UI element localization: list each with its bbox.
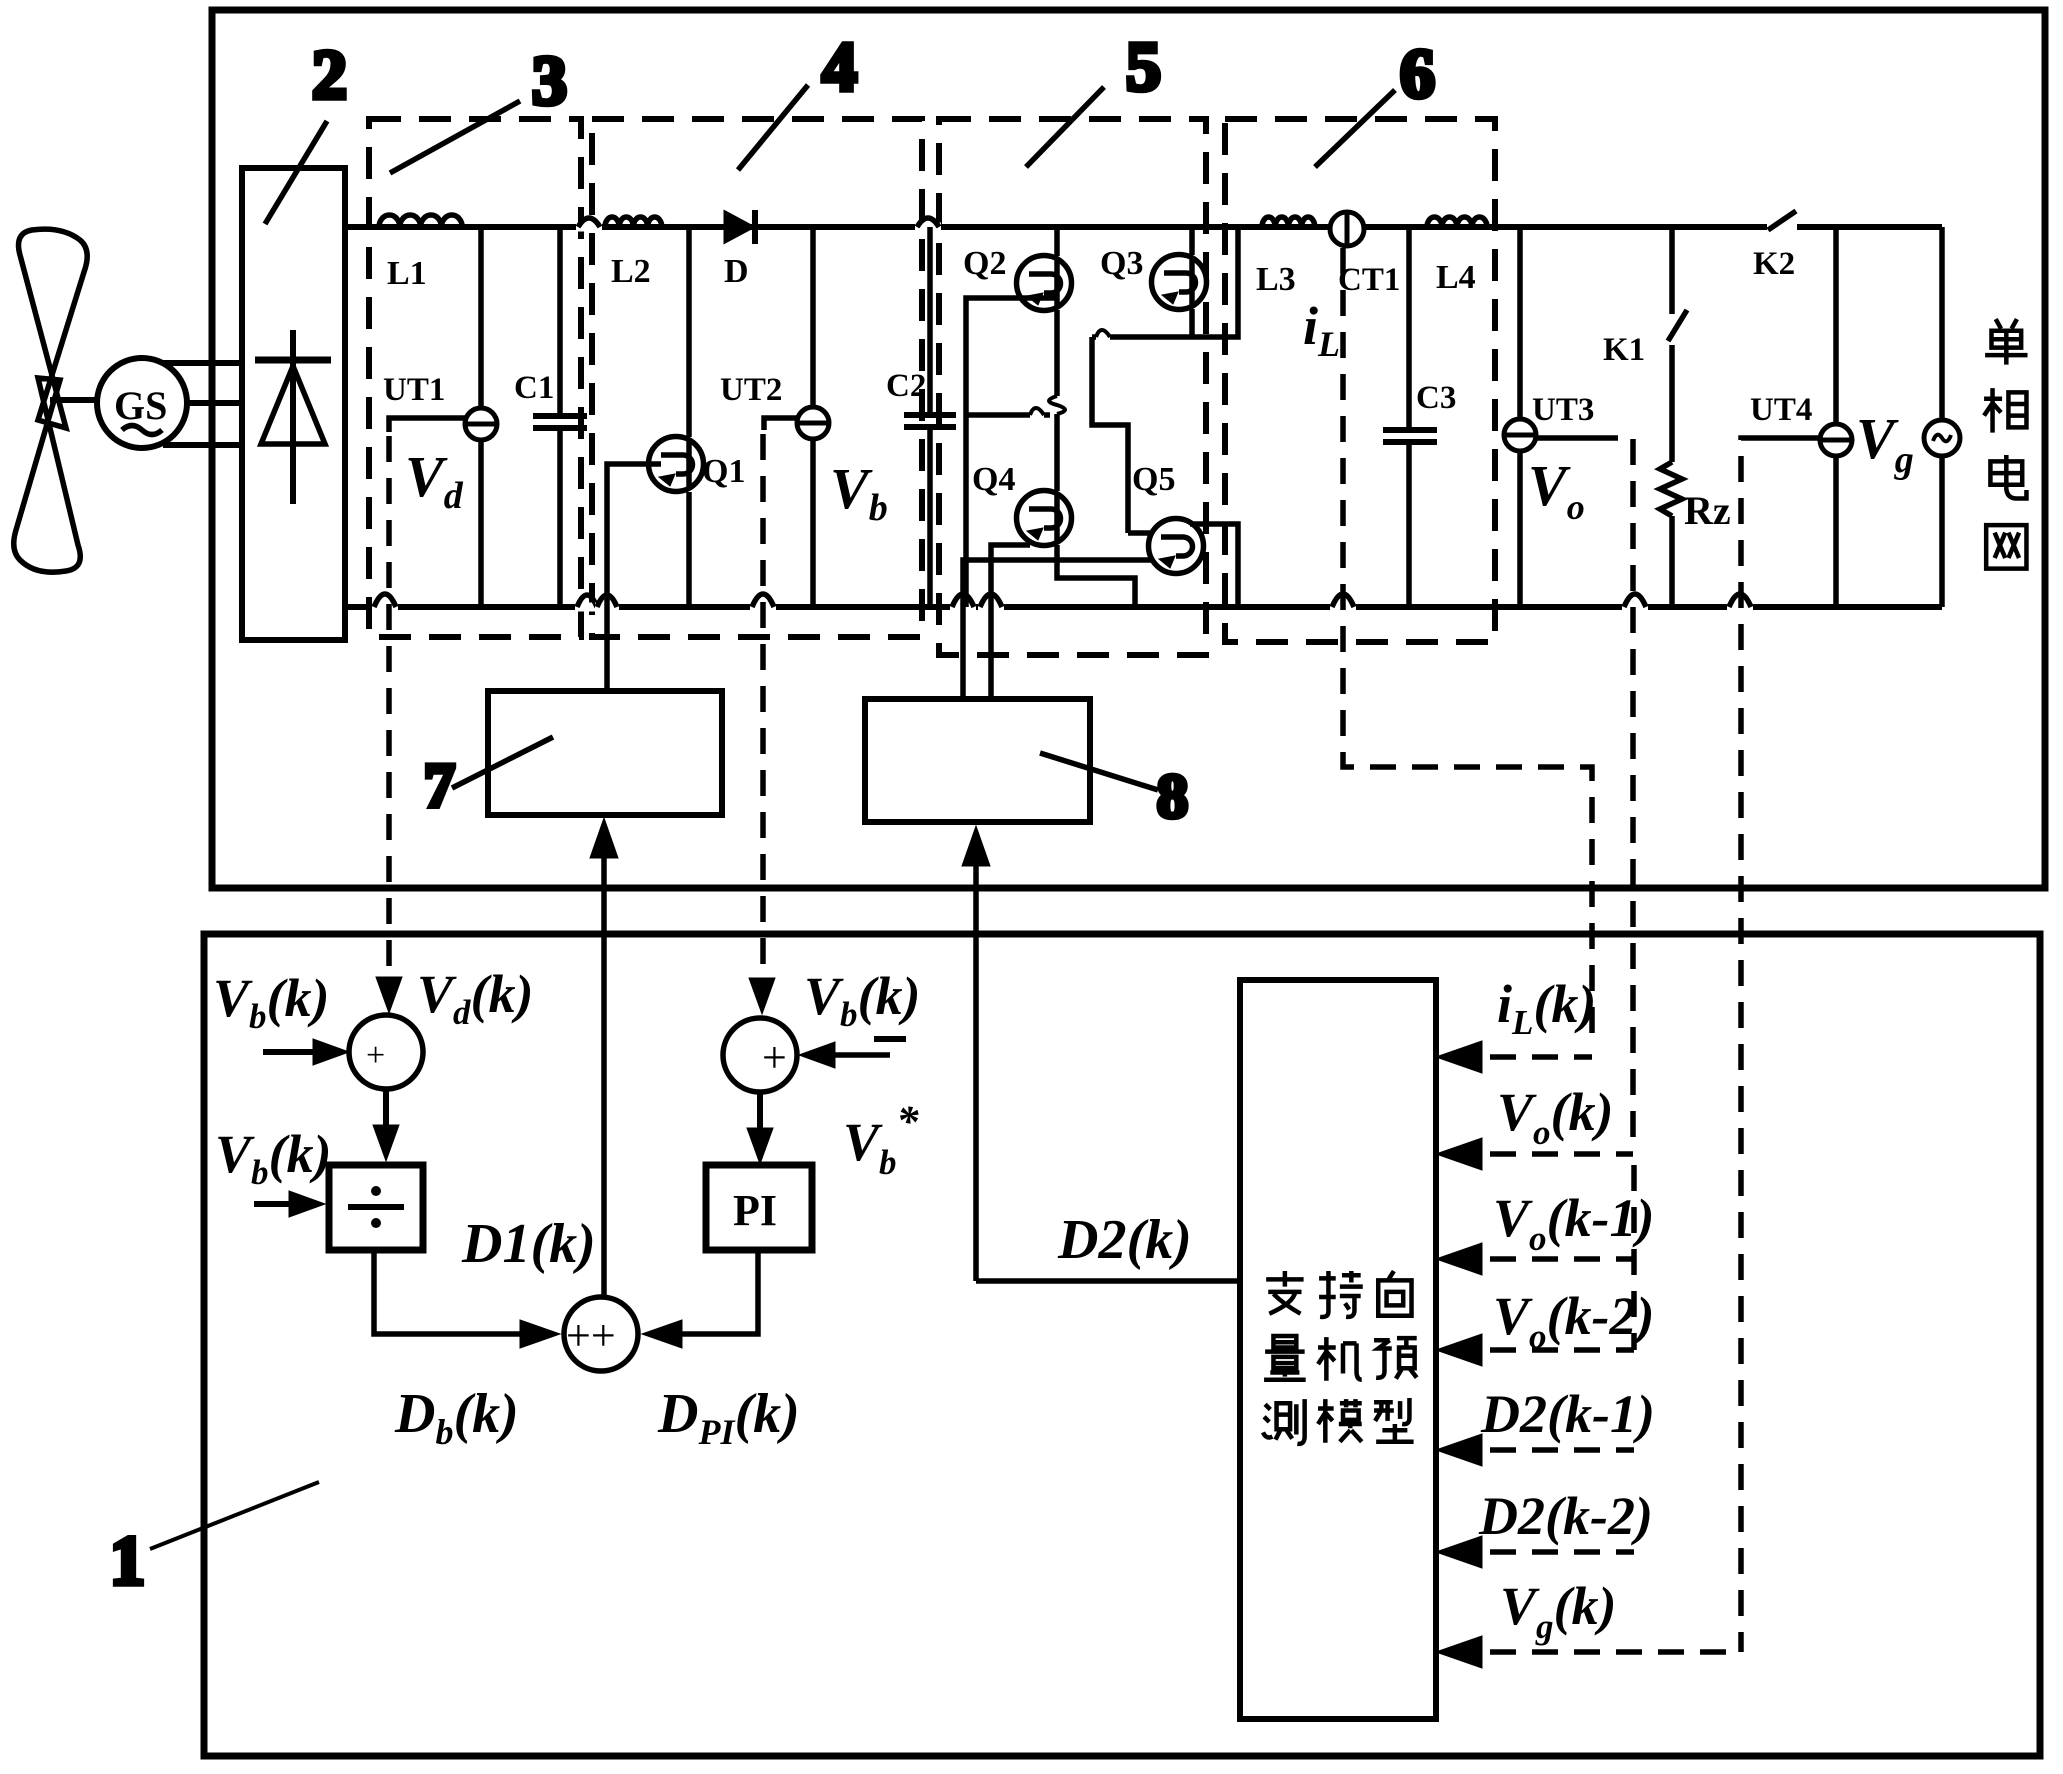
callout 5 label <box>1026 29 1161 167</box>
dashed link under Vo(k) <box>1448 1151 1633 1157</box>
UT1 measurement stub wire <box>389 418 465 432</box>
transistor Q5 circle <box>1149 519 1204 574</box>
svg-text:L4: L4 <box>1436 259 1476 296</box>
Q5 input link wire <box>1128 530 1153 536</box>
Vo(k) dashed measurement line <box>1592 438 1633 1140</box>
svg-text:Vo(k-2): Vo(k-2) <box>1493 1286 1654 1356</box>
transistor Q4 circle <box>1017 491 1072 546</box>
inductor L1 <box>379 215 462 227</box>
svg-text:K1: K1 <box>1603 332 1645 368</box>
svg-text:Q5: Q5 <box>1132 461 1175 498</box>
inductor L2 <box>605 217 662 227</box>
bridge right leg upper wire <box>1189 227 1195 255</box>
svg-text:Vb*: Vb* <box>843 1097 920 1182</box>
grid ac source wire upper <box>1939 227 1945 421</box>
bottom rail hump at Vd tap <box>372 594 398 612</box>
sensor UT3 branch wire upper <box>1517 227 1523 419</box>
bridge left branch wire upper <box>966 298 1057 607</box>
dashed link under D2(k-1) <box>1448 1447 1634 1453</box>
svg-text:3: 3 <box>532 43 567 120</box>
sensor UT1 circle <box>465 408 497 440</box>
callout 6 label <box>1315 36 1435 167</box>
transistor Q2 circle <box>1017 256 1072 311</box>
Q1 gate wire <box>607 464 661 691</box>
Vb(k) arrow into S2 <box>749 978 775 1014</box>
SVM input arrow Vo(k-1) <box>1436 1243 1482 1275</box>
svg-text:+: + <box>366 1037 385 1074</box>
summing junction S2 circle <box>723 1018 797 1092</box>
Vd(k) dashed measurement line <box>386 436 392 1000</box>
svg-text:Vo(k-1): Vo(k-1) <box>1493 1188 1654 1258</box>
svg-text:++: ++ <box>566 1311 616 1360</box>
bottom rail hump at iL tap <box>1330 594 1356 612</box>
switch K1 wire upper <box>1669 227 1675 314</box>
bottom rail hump at Vb tap <box>750 594 776 612</box>
bottom rail hump at Vg tap <box>1727 594 1753 612</box>
grid ac source circle <box>1924 420 1960 456</box>
svg-text:PI: PI <box>733 1186 777 1235</box>
callout 1 label <box>110 1482 319 1600</box>
switch K1 wire to resistor <box>1669 345 1675 462</box>
capacitor C1 lower wire <box>557 430 563 607</box>
dashed link under D2(k-2) <box>1448 1549 1634 1555</box>
sensor UT1 branch wire upper <box>478 227 484 409</box>
output wire break squiggle <box>1096 330 1110 337</box>
outer power-stage enclosure box <box>212 10 2045 888</box>
callout 8 label <box>1040 753 1188 831</box>
svg-text:7: 7 <box>424 752 455 820</box>
callout 7 label <box>424 737 553 820</box>
capacitor C2 plates <box>904 415 956 427</box>
bridge wire break squiggle <box>1049 396 1065 414</box>
summing junction S1 circle <box>349 1015 423 1089</box>
duty input arrow into block 7 <box>601 856 607 1297</box>
dashed link under Vg(k) <box>1448 1649 1741 1655</box>
outer control enclosure box 1 <box>204 934 2040 1756</box>
svg-text:iL(k): iL(k) <box>1497 974 1596 1042</box>
svg-text:C2: C2 <box>886 368 926 404</box>
dashed box 6 <box>1225 119 1495 642</box>
svg-text:UT3: UT3 <box>1532 392 1594 428</box>
Vo measurement stub wire <box>1536 435 1592 441</box>
Q4 gate wire to block 8 <box>991 545 1030 699</box>
svg-text:8: 8 <box>1157 763 1188 831</box>
svg-text:Q2: Q2 <box>963 245 1006 282</box>
sensor UT2 branch wire lower <box>810 439 816 607</box>
capacitor C3 upper wire <box>1406 227 1412 428</box>
sensor UT3 circle <box>1504 419 1536 451</box>
svg-text:L2: L2 <box>611 253 651 290</box>
svg-text:D2(k): D2(k) <box>1057 1209 1192 1271</box>
current sensor CT1 circle <box>1330 212 1364 246</box>
svg-text:Vb(k): Vb(k) <box>213 968 330 1036</box>
Vb(k) dashed measurement line <box>760 434 766 998</box>
divider output wire <box>374 1250 520 1334</box>
Vb(k) input wire into divider <box>254 1201 309 1207</box>
PI block box <box>706 1165 812 1250</box>
svg-text:GS: GS <box>114 383 167 428</box>
SVM input arrow Vg(k) <box>1436 1636 1482 1668</box>
SVM input arrow D2(k-1) <box>1436 1434 1482 1466</box>
svg-text:iL: iL <box>1303 296 1340 364</box>
dashed link under iL(k) <box>1448 1054 1592 1060</box>
svg-text:6: 6 <box>1400 36 1435 113</box>
svg-text:+: + <box>762 1033 787 1082</box>
capacitor C1 upper wire <box>557 227 563 414</box>
Vb* reference input wire into S2 <box>815 1052 890 1058</box>
S2 output arrow into PI <box>757 1092 763 1128</box>
sensor UT2 branch wire upper <box>810 227 816 408</box>
svg-text:Vo(k): Vo(k) <box>1497 1082 1614 1152</box>
SVM input arrow D2(k-2) <box>1436 1536 1482 1568</box>
bridge left leg middle wire with break <box>1054 310 1060 491</box>
generator tilde <box>122 426 162 435</box>
PI output wire <box>682 1250 758 1334</box>
SVM predictor label <box>1266 1271 1303 1314</box>
svg-text:D2(k-2): D2(k-2) <box>1478 1486 1653 1546</box>
rectifier diode anode wire <box>290 330 296 504</box>
Vb(k) input wire into S1 <box>263 1049 333 1055</box>
SVM input arrow Vo(k) <box>1436 1138 1482 1170</box>
wire GS to rectifier middle <box>187 400 242 406</box>
capacitor C2 lower wire <box>927 429 933 607</box>
bridge left leg lower wire <box>1057 545 1135 607</box>
sensor UT4 branch wire lower <box>1833 456 1839 607</box>
callout 2 label <box>265 37 347 224</box>
callout 4 label <box>738 29 857 170</box>
minus sign <box>874 1036 906 1042</box>
svg-text:Vb: Vb <box>830 456 888 529</box>
summing junction S3 circle <box>564 1297 638 1371</box>
capacitor C3 plates <box>1383 430 1437 442</box>
resistor Rz zigzag <box>1660 462 1682 516</box>
grid ac source wire lower <box>1939 456 1945 607</box>
diode D cathode bar <box>752 210 758 244</box>
svg-text:Db(k): Db(k) <box>394 1383 519 1452</box>
turbine shaft <box>50 397 98 403</box>
Vg(k) dashed measurement line <box>1741 438 1765 1652</box>
capacitor C2 upper wire <box>927 227 933 413</box>
svg-text:D2(k-1): D2(k-1) <box>1480 1384 1655 1444</box>
svg-text:Vo: Vo <box>1528 453 1585 527</box>
wire GS to rectifier top <box>162 360 242 366</box>
sensor UT1 branch wire lower <box>478 440 484 607</box>
svg-text:UT2: UT2 <box>720 372 782 408</box>
dashed box 5 <box>939 119 1206 655</box>
svg-text:Vb(k): Vb(k) <box>215 1124 332 1192</box>
transistor Q1 circle <box>649 437 704 492</box>
bridge ac output top wire <box>1092 227 1238 337</box>
transistor Q1 drain wire <box>686 227 692 437</box>
svg-text:Q4: Q4 <box>972 461 1015 498</box>
single-phase grid label <box>1985 319 2027 365</box>
SVM input arrow Vo(k-2) <box>1436 1334 1482 1366</box>
top rail crossing hump at box4-5 edge <box>915 218 941 232</box>
capacitor C1 plates <box>533 416 587 428</box>
dashed box around Vo(k-1) Vo(k-2) <box>1448 1165 1634 1350</box>
svg-text:D1(k): D1(k) <box>461 1213 596 1275</box>
diode D triangle <box>725 212 753 242</box>
wind turbine blade lower <box>14 378 81 572</box>
svg-text:UT4: UT4 <box>1750 392 1812 428</box>
D2(k) wire from SVM to block 8 <box>976 1278 1240 1284</box>
control block 7 box <box>488 691 722 815</box>
divider symbol <box>348 1204 404 1210</box>
bottom dc rail wire <box>345 604 1942 610</box>
svg-text:2: 2 <box>312 37 347 114</box>
capacitor C3 lower wire <box>1406 444 1412 607</box>
svg-text:Vb(k): Vb(k) <box>804 966 921 1034</box>
svg-text:4: 4 <box>822 29 857 106</box>
bottom rail hump at gate line Q4 <box>950 594 976 612</box>
svg-text:Vg(k): Vg(k) <box>1500 1576 1617 1646</box>
divider block box <box>329 1165 423 1250</box>
Vd(k) arrow into S1 <box>376 977 402 1013</box>
generator GS circle <box>97 358 187 448</box>
svg-text:L3: L3 <box>1256 261 1296 298</box>
svg-text:1: 1 <box>110 1523 145 1600</box>
dashed box 4 <box>592 119 922 637</box>
UT2 measurement stub wire <box>764 418 797 430</box>
bridge left leg upper wire <box>1054 227 1060 256</box>
switch K2 blade <box>1768 211 1796 230</box>
transistor Q3 circle <box>1152 255 1207 310</box>
rectifier diode triangle <box>261 366 325 444</box>
duty input arrow into block 8 <box>973 864 979 1281</box>
svg-text:5: 5 <box>1126 29 1161 106</box>
S1 output arrow to divider <box>383 1089 389 1125</box>
sensor UT3 branch wire lower <box>1517 451 1523 607</box>
sensor UT2 circle <box>797 407 829 439</box>
switch K1 blade <box>1668 310 1687 341</box>
callout 3 label <box>390 43 567 173</box>
rectifier block 2 box <box>242 168 345 640</box>
svg-text:K2: K2 <box>1753 246 1795 282</box>
svg-text:C3: C3 <box>1416 380 1456 416</box>
wind turbine blade upper <box>19 229 88 428</box>
bottom rail hump at Vo tap <box>1622 594 1648 612</box>
wire GS to rectifier bottom <box>163 442 242 448</box>
bottom rail hump at gate line Q5 <box>978 594 1004 612</box>
svg-text:Vd: Vd <box>405 444 464 517</box>
bottom rail hump at box3-4 edge <box>575 595 599 612</box>
svg-text:D: D <box>724 253 749 290</box>
iL(k) dashed measurement line <box>1343 248 1592 1040</box>
inductor L3 <box>1262 217 1315 227</box>
svg-text:Vd(k): Vd(k) <box>417 964 534 1032</box>
svg-text:Q1: Q1 <box>702 453 745 490</box>
bottom rail hump at gate line 7 <box>595 595 619 612</box>
svg-text:Vg: Vg <box>1856 406 1914 481</box>
bridge left branch cross wire <box>966 412 1050 418</box>
dashed box 3 <box>369 119 581 637</box>
UT4 measurement stub wire <box>1765 435 1820 441</box>
svg-text:Q3: Q3 <box>1100 245 1143 282</box>
svg-text:CT1: CT1 <box>1338 262 1400 298</box>
bridge inner link wire <box>1092 337 1128 533</box>
top dc rail wire <box>345 224 1942 230</box>
svg-text:UT1: UT1 <box>383 372 445 408</box>
Q5 gate wire to block 8 <box>963 560 1153 699</box>
svg-text:C1: C1 <box>514 370 554 406</box>
sensor UT4 circle <box>1820 424 1852 456</box>
control block 8 box <box>865 699 1090 822</box>
inductor L4 <box>1427 217 1487 227</box>
cross wire break squiggle <box>1030 408 1044 415</box>
top rail crossing hump at box3-4 edge <box>576 218 602 232</box>
svg-text:Rz: Rz <box>1684 488 1731 533</box>
svg-text:L1: L1 <box>387 255 427 292</box>
SVM input arrow iL(k) <box>1436 1041 1482 1073</box>
SVM predictor block box <box>1240 980 1436 1719</box>
bridge ac output bottom wire <box>1190 524 1238 607</box>
resistor Rz lower wire <box>1669 516 1675 607</box>
transistor Q1 source wire <box>686 492 692 607</box>
rectifier diode cathode bar <box>255 357 331 364</box>
sensor UT4 branch wire upper <box>1833 227 1839 424</box>
svg-text:DPI(k): DPI(k) <box>657 1383 800 1452</box>
